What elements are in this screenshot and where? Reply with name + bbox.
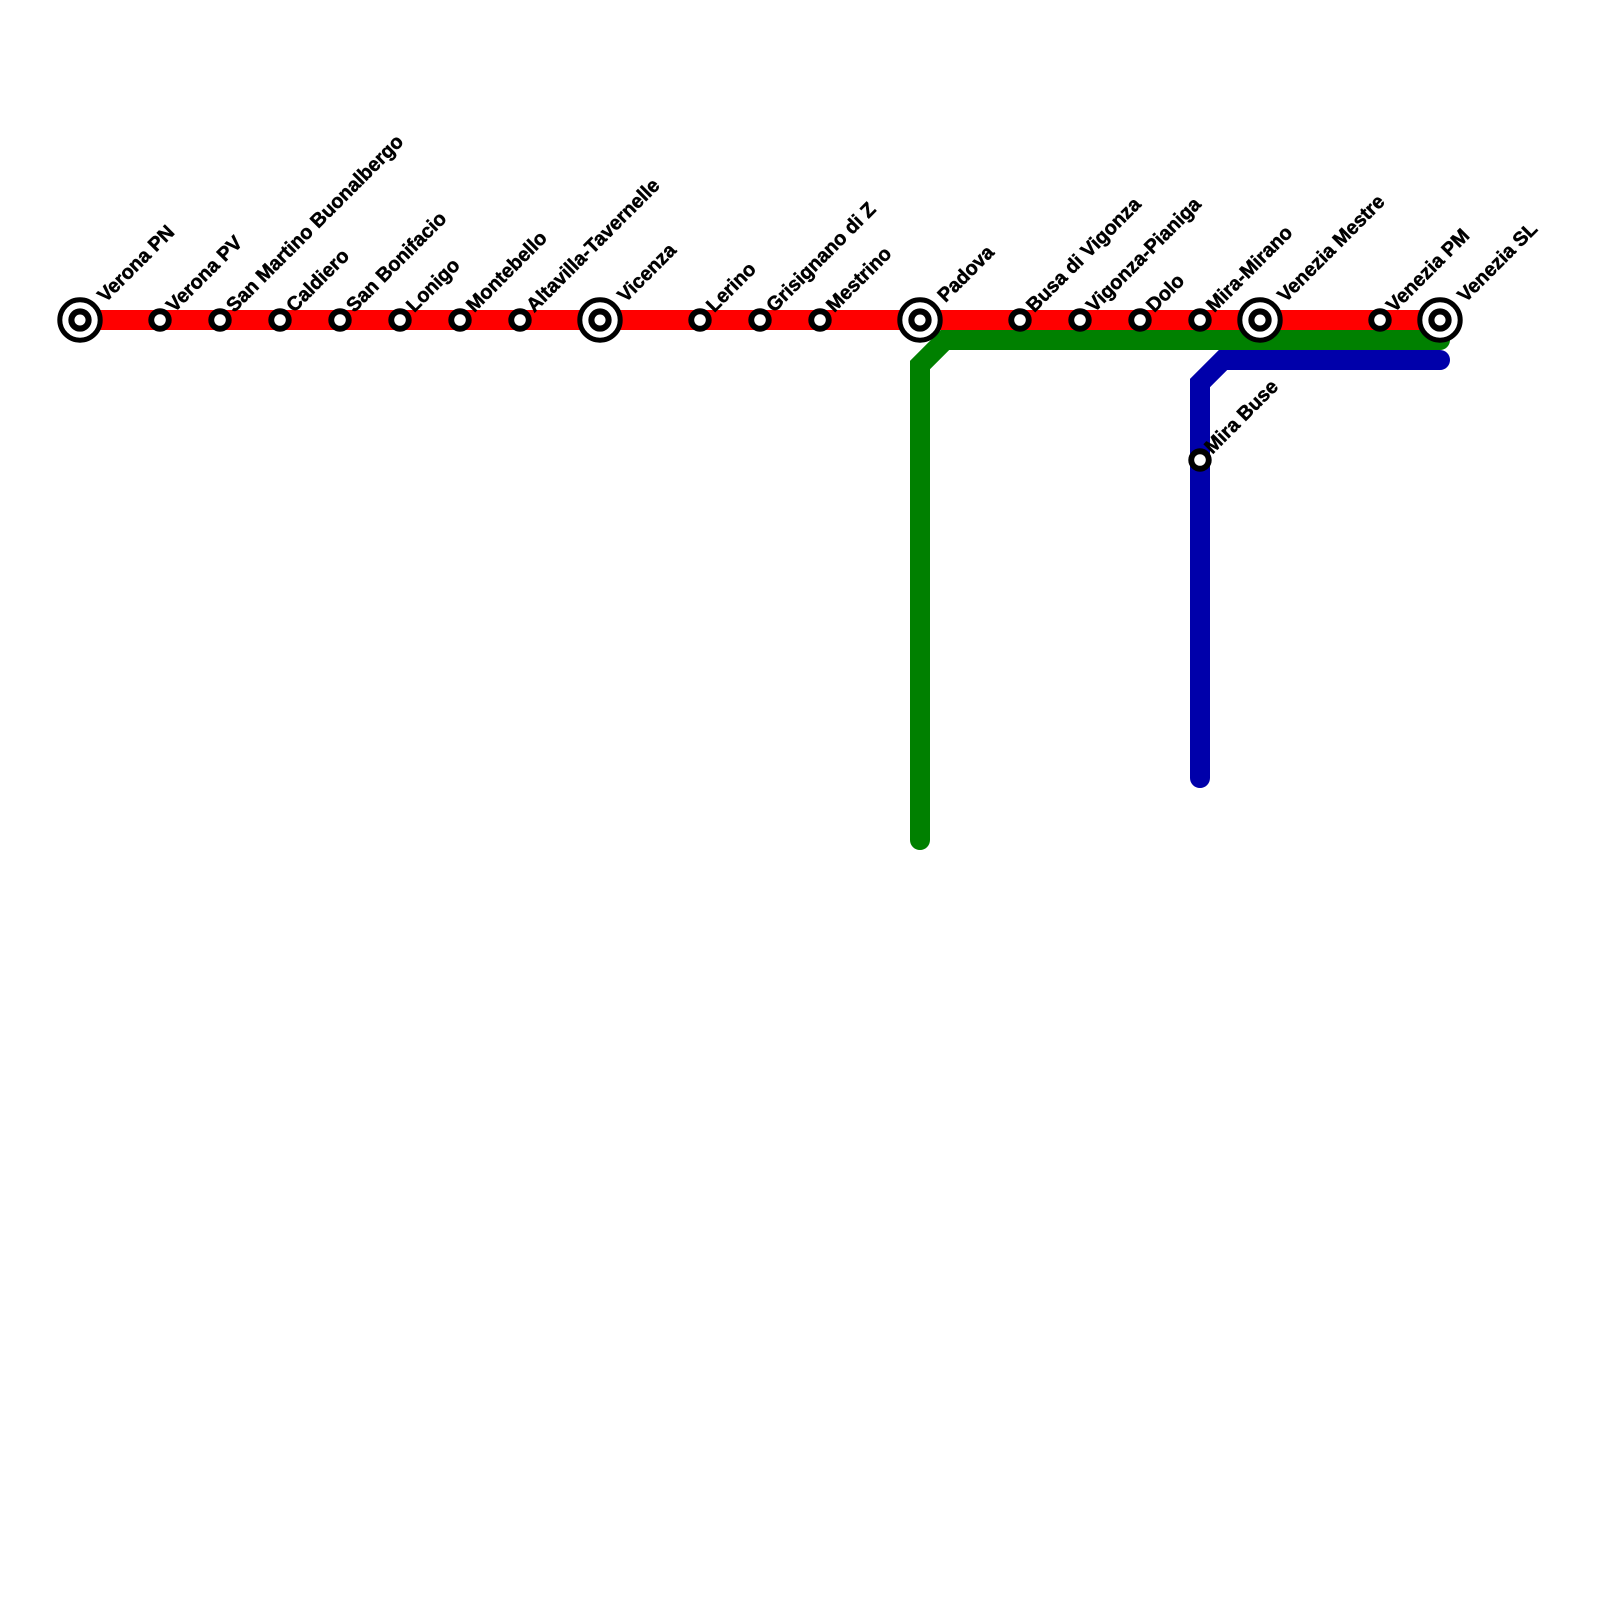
station Busa di Vigonza [1011, 311, 1029, 329]
station Venezia Mestre (interchange) [1240, 300, 1280, 340]
green line Padova branch [920, 340, 1440, 840]
station Mira Buse [1191, 451, 1209, 469]
blue line Mira branch [1200, 360, 1440, 778]
label Busa di Vigonza [1022, 193, 1146, 317]
label Verona PV [162, 231, 247, 316]
label Padova [933, 241, 999, 307]
label Mira Buse [1200, 376, 1282, 458]
station Dolo [1131, 311, 1149, 329]
station Verona PV [151, 311, 169, 329]
station Mestrino [811, 311, 829, 329]
station Lonigo [391, 311, 409, 329]
station Caldiero [271, 311, 289, 329]
station Venezia SL (interchange) [1420, 300, 1460, 340]
label San Bonifacio [342, 208, 451, 317]
label Venezia PM [1382, 225, 1474, 317]
station Vicenza (interchange) [580, 300, 620, 340]
label Vigonza-Pianiga [1082, 193, 1206, 317]
label Mestrino [822, 243, 896, 317]
label Mira-Mirano [1202, 222, 1297, 317]
station Grisignano di Z [751, 311, 769, 329]
label San Martino Buonalbergo [222, 131, 408, 317]
label Altavilla-Tavernelle [522, 175, 664, 317]
station San Bonifacio [331, 311, 349, 329]
label Verona PN [93, 221, 179, 307]
label Venezia Mestre [1273, 191, 1389, 307]
station Verona PN (interchange) [60, 300, 100, 340]
label Grisignano di Z [762, 198, 880, 316]
station Lerino [691, 311, 709, 329]
label Lonigo [402, 254, 464, 316]
station Montebello [451, 311, 469, 329]
station Venezia PM [1371, 311, 1389, 329]
station San Martino Buonalbergo [211, 311, 229, 329]
station Vigonza-Pianiga [1071, 311, 1089, 329]
label Vicenza [613, 239, 681, 307]
station Mira-Mirano [1191, 311, 1209, 329]
red line Verona-Venezia [80, 310, 1440, 330]
station Altavilla-Tavernelle [511, 311, 529, 329]
label Dolo [1142, 270, 1189, 317]
label Caldiero [282, 245, 354, 317]
label Venezia SL [1453, 218, 1542, 307]
label Lerino [702, 258, 760, 316]
label Montebello [462, 227, 551, 316]
station Padova (interchange) [900, 300, 940, 340]
